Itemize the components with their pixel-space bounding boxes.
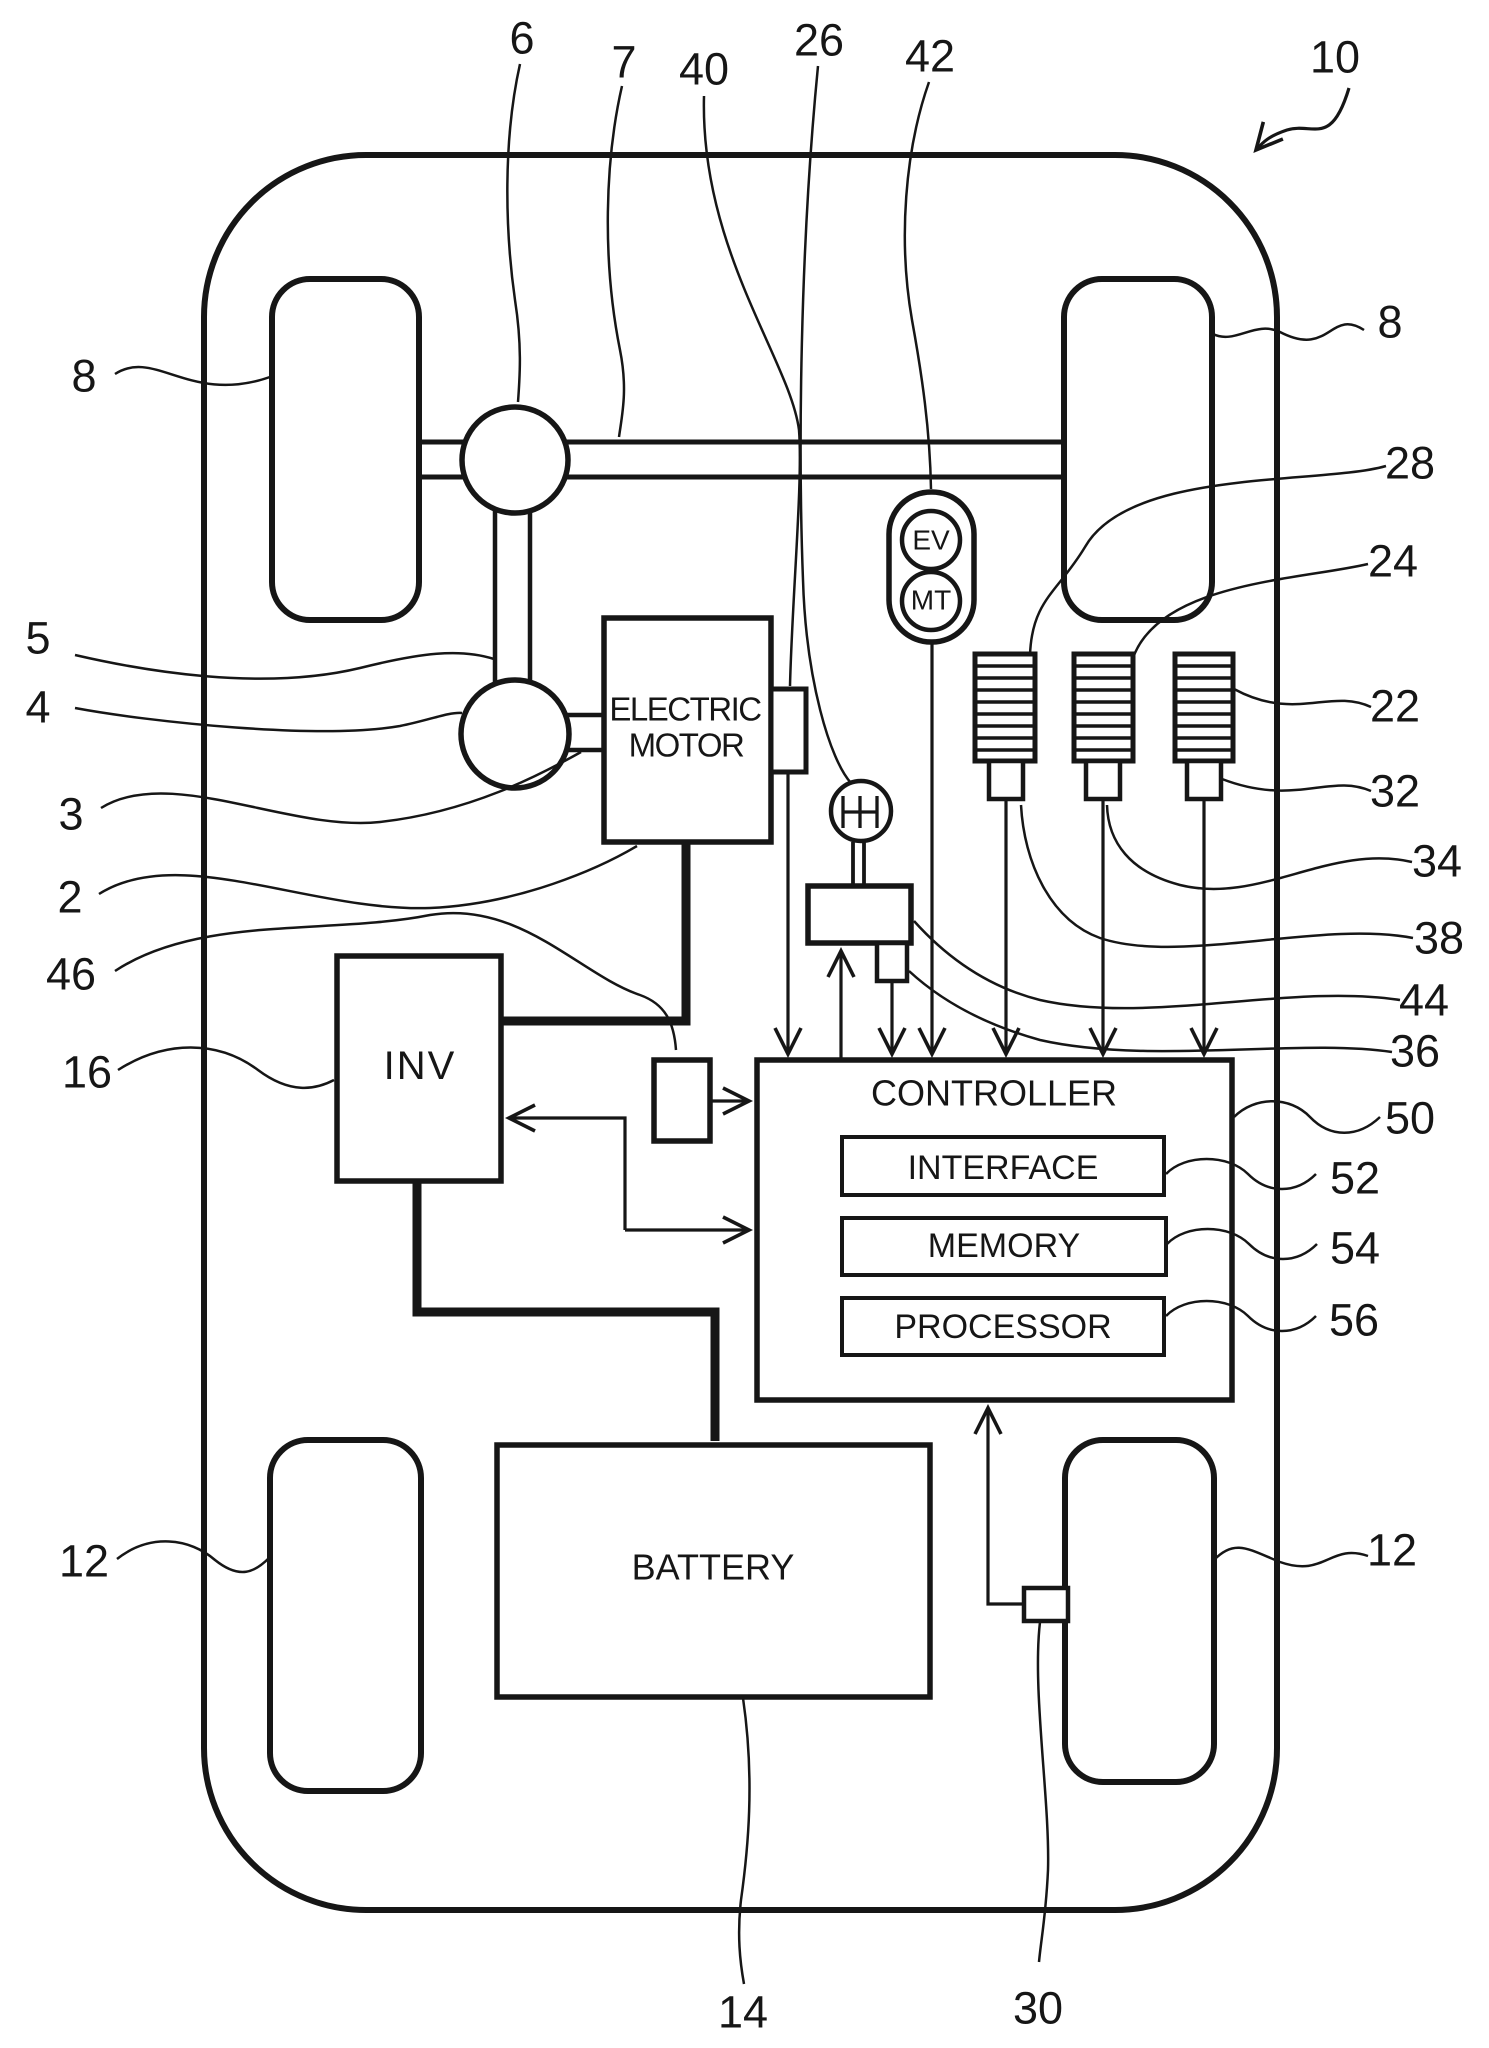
svg-text:44: 44 bbox=[1399, 975, 1449, 1026]
svg-text:5: 5 bbox=[25, 613, 50, 664]
pedal 28 bbox=[975, 654, 1035, 761]
wheel rear-left 12 bbox=[270, 1440, 421, 1791]
leader 50 bbox=[1234, 1101, 1380, 1133]
electric motor 2 bbox=[604, 618, 771, 842]
processor 56 bbox=[842, 1298, 1164, 1355]
leader 32 bbox=[1222, 779, 1371, 791]
svg-text:56: 56 bbox=[1329, 1295, 1379, 1346]
leader 52 bbox=[1166, 1159, 1316, 1189]
svg-text:MT: MT bbox=[911, 585, 951, 616]
svg-text:46: 46 bbox=[46, 949, 96, 1000]
wheel sensor 30 bbox=[1024, 1588, 1068, 1621]
svg-text:12: 12 bbox=[59, 1536, 109, 1587]
leader 28 bbox=[1030, 466, 1386, 655]
svg-text:52: 52 bbox=[1330, 1153, 1380, 1204]
svg-text:12: 12 bbox=[1367, 1525, 1417, 1576]
svg-text:22: 22 bbox=[1370, 681, 1420, 732]
leader 14 bbox=[739, 1698, 749, 1984]
svg-text:CONTROLLER: CONTROLLER bbox=[871, 1073, 1117, 1114]
wire 40 to controller bbox=[786, 772, 789, 1054]
leader 42 bbox=[905, 82, 931, 489]
leader 22 bbox=[1234, 689, 1371, 707]
svg-text:INV: INV bbox=[384, 1044, 457, 1088]
wire controller to inverter bbox=[509, 1118, 625, 1230]
leader 12 left bbox=[117, 1541, 269, 1572]
svg-text:BATTERY: BATTERY bbox=[632, 1547, 795, 1588]
wire inverter to controller bbox=[625, 1228, 749, 1231]
leader 40 bbox=[704, 96, 800, 686]
wire 48 to controller bbox=[710, 1099, 749, 1102]
leader 56 bbox=[1166, 1301, 1316, 1331]
svg-text:28: 28 bbox=[1385, 438, 1435, 489]
wire controller to 44 bbox=[839, 951, 842, 1060]
svg-text:30: 30 bbox=[1013, 1983, 1063, 2034]
svg-text:32: 32 bbox=[1370, 766, 1420, 817]
svg-text:8: 8 bbox=[1377, 297, 1402, 348]
wire 42 to controller bbox=[930, 642, 933, 1054]
leader 38 bbox=[1021, 805, 1413, 947]
leader 12 right bbox=[1214, 1548, 1368, 1567]
shift position box 44 bbox=[808, 886, 911, 943]
wire pedal 24 to controller bbox=[1101, 799, 1104, 1054]
leader 2 bbox=[99, 846, 637, 908]
svg-text:3: 3 bbox=[58, 789, 83, 840]
vehicle body outline 10 bbox=[204, 155, 1277, 1910]
inverter 16 bbox=[337, 956, 501, 1181]
svg-text:26: 26 bbox=[794, 15, 844, 66]
svg-text:7: 7 bbox=[611, 37, 636, 88]
memory 54 bbox=[842, 1218, 1166, 1275]
pedal sensor 32 bbox=[1187, 761, 1221, 799]
wire 36 to controller bbox=[890, 981, 893, 1054]
pedal sensor 34 bbox=[1086, 761, 1120, 799]
svg-text:36: 36 bbox=[1390, 1026, 1440, 1077]
sensor box 48 bbox=[654, 1060, 710, 1141]
svg-text:10: 10 bbox=[1310, 32, 1360, 83]
svg-text:38: 38 bbox=[1414, 913, 1464, 964]
interface 52 bbox=[842, 1137, 1164, 1195]
svg-text:14: 14 bbox=[718, 1987, 768, 2038]
svg-text:2: 2 bbox=[57, 872, 82, 923]
EV/MT indicator 42 bbox=[889, 492, 974, 642]
svg-text:EV: EV bbox=[912, 525, 950, 556]
svg-text:ELECTRIC: ELECTRIC bbox=[609, 691, 761, 728]
svg-text:PROCESSOR: PROCESSOR bbox=[894, 1308, 1111, 1346]
pedal 24 bbox=[1074, 654, 1133, 761]
pedal sensor 38 bbox=[989, 761, 1023, 799]
wheel rear-right 12 bbox=[1065, 1440, 1214, 1782]
svg-text:40: 40 bbox=[679, 44, 729, 95]
leader 8 left bbox=[115, 367, 270, 385]
svg-text:6: 6 bbox=[509, 13, 534, 64]
svg-text:24: 24 bbox=[1368, 536, 1418, 587]
battery 14 bbox=[497, 1445, 930, 1697]
svg-text:54: 54 bbox=[1330, 1223, 1380, 1274]
controller 50 bbox=[757, 1060, 1232, 1400]
wheel front-left 8 bbox=[272, 279, 419, 620]
shift lever stem bbox=[853, 842, 864, 888]
wheel front-right 8 bbox=[1064, 279, 1212, 620]
svg-text:MEMORY: MEMORY bbox=[928, 1227, 1080, 1265]
pedal 22 bbox=[1175, 654, 1233, 761]
drive shaft 5 bbox=[495, 500, 530, 700]
leader arrow 10 bbox=[1256, 88, 1349, 150]
wire pedal 22 to controller bbox=[1202, 799, 1205, 1054]
power cable 46 motor to inverter bbox=[501, 842, 686, 1021]
leader 7 bbox=[608, 86, 624, 437]
svg-text:50: 50 bbox=[1385, 1093, 1435, 1144]
leader 34 bbox=[1107, 805, 1412, 889]
axle 7 bbox=[419, 442, 1064, 477]
svg-text:16: 16 bbox=[62, 1047, 112, 1098]
leader 26 bbox=[801, 66, 851, 783]
leader 16 bbox=[118, 1048, 334, 1088]
differential 6 bbox=[462, 407, 568, 513]
leader 44 bbox=[914, 921, 1400, 1008]
leader 46 bbox=[115, 913, 676, 1050]
svg-text:INTERFACE: INTERFACE bbox=[908, 1149, 1099, 1187]
leader 54 bbox=[1167, 1229, 1317, 1259]
svg-text:42: 42 bbox=[905, 31, 955, 82]
coupling 3 bbox=[566, 715, 606, 750]
leader 4 bbox=[75, 708, 462, 731]
wire pedal 28 to controller bbox=[1004, 799, 1007, 1054]
leader 3 bbox=[101, 752, 581, 823]
sensor box 40 bbox=[771, 689, 806, 772]
leader 5 bbox=[75, 653, 494, 679]
leader 6 bbox=[507, 64, 520, 402]
shift lever 26 bbox=[831, 781, 891, 841]
leader 8 right bbox=[1213, 324, 1364, 339]
power cable inverter to battery bbox=[417, 1181, 715, 1441]
leader 24 bbox=[1133, 564, 1368, 658]
svg-text:34: 34 bbox=[1412, 836, 1462, 887]
wire 30 to controller bbox=[988, 1408, 1024, 1604]
svg-text:8: 8 bbox=[71, 351, 96, 402]
gearbox 4 bbox=[461, 680, 569, 788]
leader 30 bbox=[1038, 1622, 1048, 1962]
svg-text:MOTOR: MOTOR bbox=[629, 727, 744, 764]
sensor box 36 bbox=[877, 943, 907, 981]
leader 36 bbox=[909, 971, 1392, 1052]
svg-text:4: 4 bbox=[25, 682, 50, 733]
